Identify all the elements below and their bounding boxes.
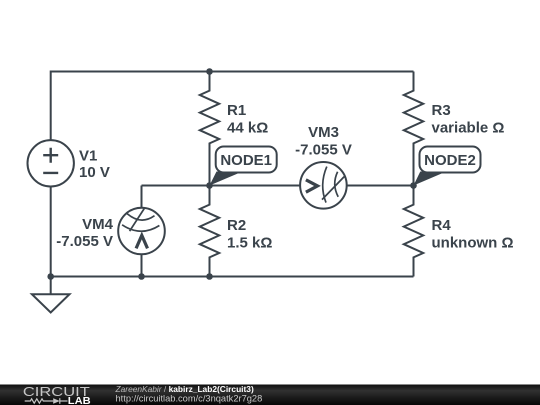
- svg-text:R3: R3: [432, 102, 451, 119]
- V1 label: [79, 147, 110, 181]
- svg-text:VM4: VM4: [82, 216, 114, 233]
- wire left bottom from V1 to ground node: [50, 186, 52, 276]
- R3 label: [432, 102, 505, 137]
- svg-text:VM3: VM3: [308, 124, 339, 141]
- svg-text:10 V: 10 V: [79, 164, 110, 181]
- junction dot R2 bottom: [206, 273, 213, 280]
- svg-text:NODE1: NODE1: [220, 152, 272, 169]
- svg-text:LAB: LAB: [68, 395, 91, 405]
- node NODE2 callout: [414, 147, 481, 186]
- svg-text:V1: V1: [79, 147, 97, 164]
- wire VM4 bottom lead: [141, 254, 143, 276]
- svg-text:R1: R1: [227, 102, 246, 119]
- svg-text:-7.055 V: -7.055 V: [295, 142, 352, 159]
- VM4 label: [56, 216, 113, 250]
- R4 label: [432, 217, 514, 252]
- VM3 label: [295, 124, 352, 159]
- junction node B NODE2: [410, 182, 417, 189]
- svg-text:44 kΩ: 44 kΩ: [227, 119, 268, 136]
- svg-text:ZareenKabir / kabirz_Lab2(Circ: ZareenKabir / kabirz_Lab2(Circuit3): [115, 384, 254, 394]
- resistor R4: [404, 186, 423, 277]
- svg-text:R2: R2: [227, 217, 246, 234]
- junction dot VM4 bottom: [138, 273, 145, 280]
- wire middle run NODE1 to VM3 and VM4 branch: [142, 185, 301, 187]
- wire VM3 right to NODE2: [347, 185, 414, 187]
- svg-text:unknown Ω: unknown Ω: [432, 234, 514, 251]
- wire bottom run: [51, 276, 414, 278]
- junction dot ground: [47, 273, 54, 280]
- junction dot top R1: [206, 68, 213, 75]
- voltmeter VM3: [300, 162, 347, 209]
- wire VM4 top lead: [141, 186, 143, 208]
- wire top run from V1 top to R3 top: [51, 72, 414, 141]
- R1 label: [227, 102, 268, 137]
- svg-text:1.5 kΩ: 1.5 kΩ: [227, 234, 272, 251]
- R2 label: [227, 217, 272, 252]
- voltmeter VM4: [118, 208, 165, 255]
- resistor R3: [404, 72, 423, 186]
- svg-text:R4: R4: [432, 217, 452, 234]
- svg-text:variable Ω: variable Ω: [432, 119, 505, 136]
- voltage source V1: [28, 140, 74, 186]
- footer logo circuit line with resistor and diode: [25, 398, 68, 404]
- node NODE1 callout: [210, 147, 277, 186]
- junction node A NODE1: [206, 182, 213, 189]
- resistor R1: [200, 72, 219, 186]
- svg-text:-7.055 V: -7.055 V: [56, 233, 113, 250]
- svg-text:NODE2: NODE2: [424, 152, 476, 169]
- resistor R2: [200, 186, 219, 277]
- footer bar: [0, 385, 540, 405]
- ground: [32, 277, 70, 313]
- svg-text:http://circuitlab.com/c/3nqatk: http://circuitlab.com/c/3nqatk2r7g28: [116, 394, 263, 404]
